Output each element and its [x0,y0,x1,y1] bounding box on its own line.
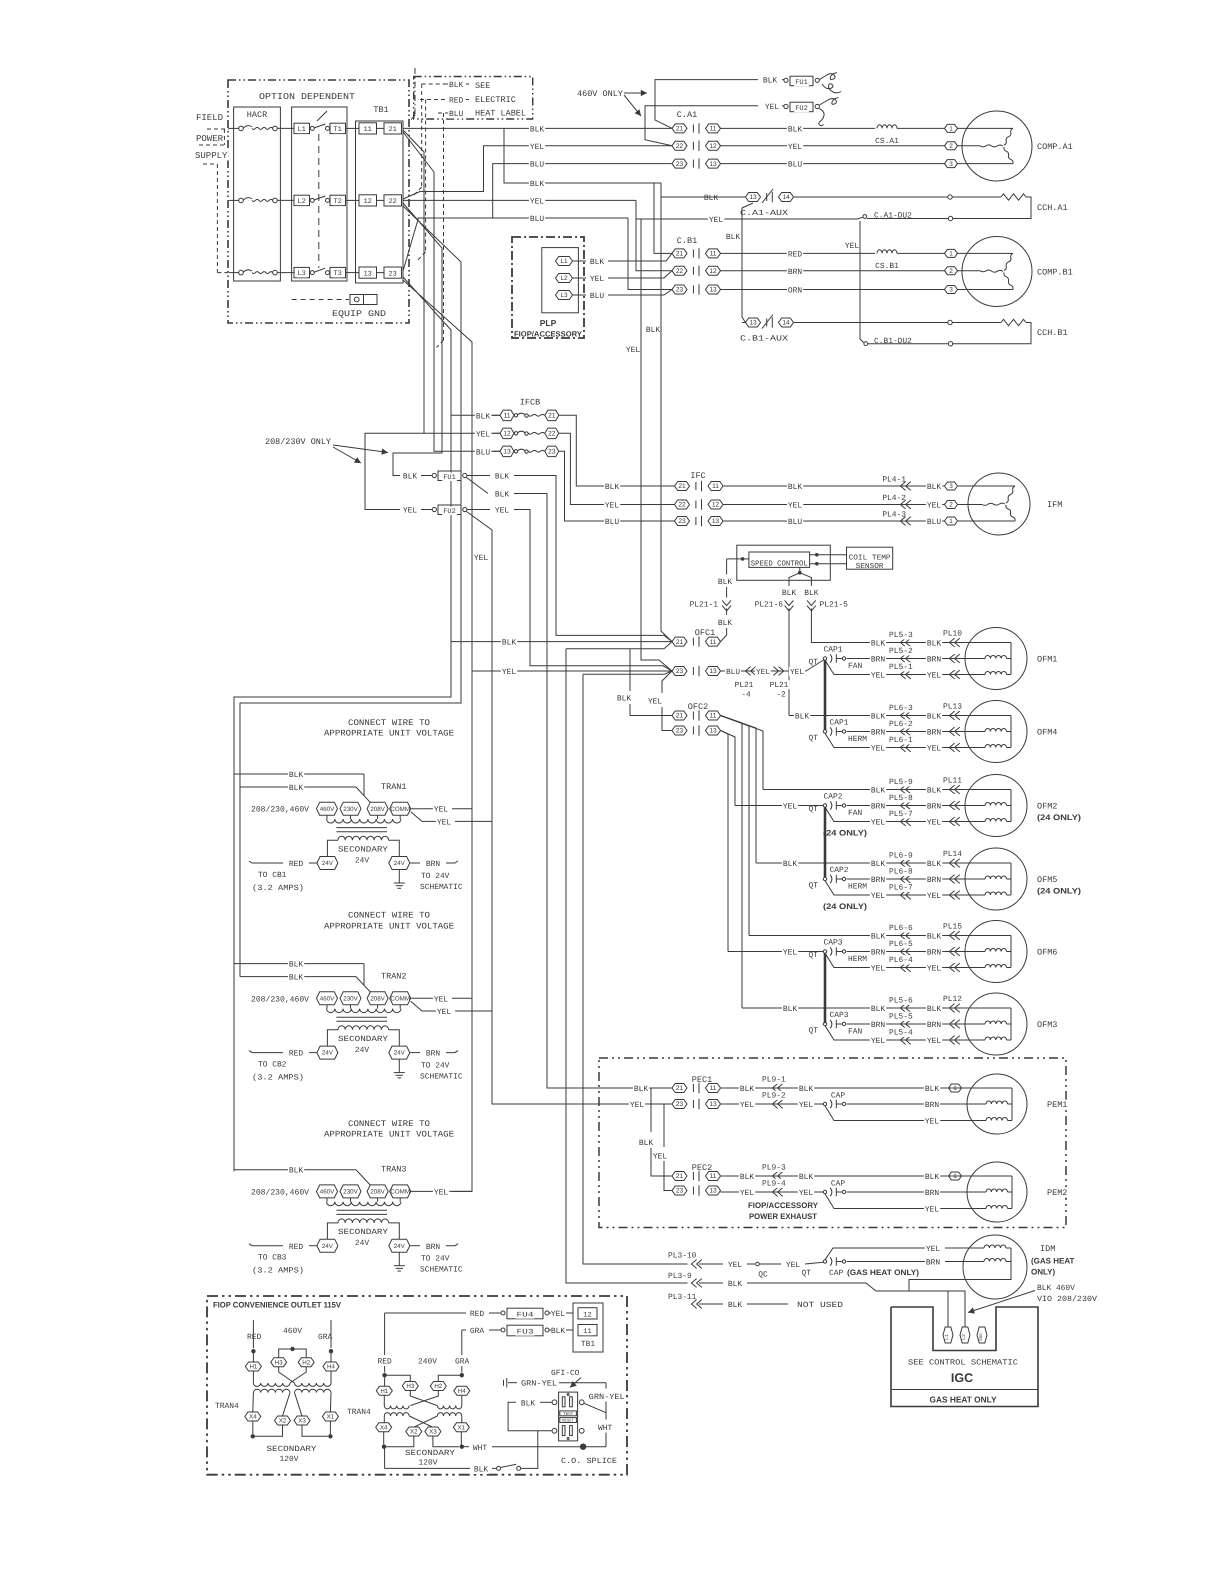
svg-text:208/230,460V: 208/230,460V [251,1188,309,1197]
box FIOP/ACCESSORY POWER EXHAUST (dash-dot) [599,1058,1066,1228]
svg-text:H2: H2 [302,1359,310,1366]
svg-text:208/230V ONLY: 208/230V ONLY [265,437,331,447]
svg-text:PL10: PL10 [943,630,962,639]
svg-text:CAP3: CAP3 [824,939,843,948]
svg-text:OFM1: OFM1 [1037,655,1057,665]
motor OFM2 [965,775,1027,837]
svg-text:BLK: BLK [718,619,732,628]
svg-text:X1: X1 [327,1414,335,1421]
svg-text:(GAS HEAT: (GAS HEAT [1031,1257,1075,1266]
label power exhaust [747,1201,819,1210]
speed control outer box [737,545,831,580]
WHT riser [605,1413,607,1420]
rail 472 YEL common (OFC1-23 / TRAN COMMs) [403,280,472,1191]
arrow to YEL vertical [624,95,641,116]
svg-text:RED: RED [470,1310,484,1319]
PEM1 wires [721,1087,949,1089]
svg-text:CAP1: CAP1 [824,646,843,655]
wire FU1 BLK out1 to rail 556 [467,475,490,477]
svg-text:C.O. SPLICE: C.O. SPLICE [561,1457,617,1466]
svg-text:X1: X1 [458,1424,466,1431]
svg-text:PL6-3: PL6-3 [889,704,913,713]
svg-text:YEL: YEL [927,745,941,754]
rail 654 BLK to C.B1-21 [654,183,672,253]
svg-text:BLK: BLK [927,1005,941,1014]
svg-text:1: 1 [953,1085,957,1092]
PEM2 wires [721,1175,949,1177]
rail 860 YEL DU2 link [860,221,864,343]
svg-text:YEL: YEL [740,1189,754,1198]
svg-text:PL13: PL13 [943,703,962,712]
svg-text:PL5-9: PL5-9 [889,778,913,787]
svg-text:BRN: BRN [927,1021,941,1030]
svg-text:YEL: YEL [437,819,451,828]
svg-text:POWER: POWER [196,134,224,144]
svg-text:(24 ONLY): (24 ONLY) [823,902,867,911]
OFM3 chevrons [900,1004,905,1013]
svg-text:BRN: BRN [871,876,885,885]
TB1 terminals 12/22 [359,195,377,206]
terminal L3 [556,291,573,300]
svg-text:CONNECT WIRE TO: CONNECT WIRE TO [348,911,430,921]
svg-text:21: 21 [678,483,686,490]
GFI-CO receptacle [550,1368,581,1377]
TRAN3 primary taps [250,1188,310,1197]
svg-text:BLK: BLK [763,77,777,86]
svg-text:PL3-9: PL3-9 [668,1272,692,1281]
TRAN1 RED lead [249,861,283,863]
contactor IFC label [689,471,706,481]
contact IFC 22-12 [604,501,620,510]
svg-text:13: 13 [709,287,717,294]
TB1 terminals 11/21 [359,123,377,134]
svg-text:21: 21 [548,413,556,420]
svg-text:BRN: BRN [927,803,941,812]
contact IFC 21-11 [604,482,620,491]
svg-text:WHT: WHT [598,1424,612,1433]
svg-text:RED: RED [289,1243,303,1252]
TRAN3 primary winding [326,1198,328,1202]
breaker HACR pole y200 [229,199,239,201]
svg-text:(24 ONLY): (24 ONLY) [1037,887,1081,896]
svg-text:BLU: BLU [590,292,604,301]
svg-text:12: 12 [712,502,720,509]
svg-text:TRAN3: TRAN3 [381,1165,407,1175]
breaker HACR pole y128 [229,127,239,129]
note connect wire 3 [347,1119,431,1129]
svg-text:PL6-1: PL6-1 [889,736,913,745]
contactor OFC2 [687,702,710,712]
svg-text:FIOP/ACCESSORY: FIOP/ACCESSORY [514,330,582,339]
capacitor QT CAP gas heat [801,1268,813,1277]
svg-text:FU1: FU1 [795,79,808,87]
svg-text:21: 21 [676,1085,684,1092]
dashed wire RED to TB1-23 zone [425,100,427,253]
rail 570 IFCB22 to IFC [559,433,675,504]
svg-text:FIOP CONVENIENCE OUTLET 115V: FIOP CONVENIENCE OUTLET 115V [213,1301,342,1310]
rail 576 IFCB21 to IFC [559,415,675,486]
TRAN4-460 H2-H3 jumper [279,1349,307,1358]
svg-text:OPTION DEPENDENT: OPTION DEPENDENT [259,92,356,102]
svg-text:FU2: FU2 [443,508,456,516]
svg-text:BLK: BLK [617,695,631,704]
svg-text:YEL: YEL [626,346,640,355]
svg-text:X3: X3 [298,1418,306,1425]
svg-text:FAN: FAN [848,1028,862,1037]
TRAN1 core [336,827,387,829]
contact L2-T2 [294,195,310,205]
TRAN1 YEL leads [411,808,434,810]
TB1 terminals 13/23 [359,267,377,278]
svg-text:YEL: YEL [502,668,516,677]
svg-text:BLK: BLK [634,1085,648,1094]
svg-text:GRN-YEL: GRN-YEL [521,1380,557,1389]
contact C.A1 21-11 [672,124,687,133]
svg-text:BLK: BLK [530,126,544,135]
svg-text:COMM: COMM [390,1189,410,1196]
wire BLK branch down to C.B1 zone [504,128,661,183]
svg-text:BLK: BLK [289,784,303,793]
svg-text:(24 ONLY): (24 ONLY) [1037,813,1081,822]
svg-text:C.B1-AUX: C.B1-AUX [740,335,788,344]
wire FU1 BLK out2 to rail 547 (PEC1) [467,478,489,494]
label 208/230V ONLY [264,437,332,447]
svg-text:BRN: BRN [871,656,885,665]
svg-text:208V: 208V [370,1189,385,1196]
mechanical link dashed [318,134,320,268]
svg-text:YEL: YEL [648,698,662,707]
svg-text:COMM: COMM [390,995,410,1002]
svg-text:GRA: GRA [455,1358,469,1367]
svg-text:460V: 460V [283,1327,302,1336]
heater CCH.A1 [948,195,952,199]
terminals 1 2 3 comp A1 [945,124,958,132]
svg-text:CAP2: CAP2 [830,866,849,875]
box PLP FIOP/ACCESSORY (dash-dot) [512,237,584,338]
svg-text:YEL: YEL [474,554,488,563]
TRAN1 secondary winding [338,836,389,840]
speed control inner box [749,552,810,567]
arrow to FU2 branch [333,447,361,463]
contact IFC 23-13 [604,517,620,526]
motor OFM6 [965,921,1027,983]
transformer TRAN4 460V version [246,1332,262,1341]
svg-text:12: 12 [709,268,717,275]
svg-text:BLK: BLK [476,412,490,421]
svg-text:OFC1: OFC1 [695,628,715,638]
svg-text:NOT USED: NOT USED [797,1301,843,1310]
svg-text:PL3-10: PL3-10 [668,1252,697,1261]
motor IDM [963,1235,1027,1299]
svg-text:BLK: BLK [927,483,941,492]
svg-text:2: 2 [949,143,953,150]
svg-text:YEL: YEL [871,672,885,681]
TRAN2 RED lead [249,1051,283,1053]
svg-text:BLK: BLK [783,1005,797,1014]
svg-text:WHT: WHT [473,1444,487,1453]
svg-text:YEL: YEL [551,1310,565,1319]
TRAN4-460 X terminals [245,1412,261,1421]
svg-text:BLK: BLK [521,1399,535,1408]
svg-text:BLK: BLK [927,787,941,796]
contact C.B1 23-13 [672,285,687,294]
svg-text:BLK: BLK [799,1173,813,1182]
TRAN1 primary taps [250,805,310,814]
svg-text:BRN: BRN [871,1021,885,1030]
plug C.A1-DU2 [852,218,857,220]
svg-text:OFM3: OFM3 [1037,1020,1057,1030]
svg-text:PL6-5: PL6-5 [889,940,913,949]
svg-text:BLU: BLU [726,668,740,677]
OFM5 labels [782,859,798,868]
svg-text:PL21: PL21 [735,681,754,690]
BLK splice switch bottom [517,1466,521,1470]
svg-text:(24 ONLY): (24 ONLY) [823,829,867,838]
rail 461 from TB1-22 to left rail 240 [240,206,461,977]
TRAN1 primary winding [326,815,328,819]
TRAN4-240 H terminals [376,1386,392,1395]
TRAN4-240 X cross [383,1416,385,1423]
svg-text:BLK: BLK [639,1139,653,1148]
svg-text:230V: 230V [343,806,358,813]
svg-text:13: 13 [709,1101,717,1108]
wire BLU phase3 Z-path to C.A1 [403,164,672,271]
svg-text:GRA: GRA [470,1327,484,1336]
pigtail squiggles FU1 [819,73,837,80]
svg-text:L3: L3 [560,292,568,299]
TRAN3 ground [398,1252,400,1266]
svg-text:L2: L2 [560,275,568,282]
svg-text:YEL: YEL [927,672,941,681]
rail 742 BLK aux link [742,203,753,323]
OFC2-13 output fan [721,731,736,806]
TRAN4-240 RED riser to FU4 [384,1313,386,1355]
coil CS.B1 [877,250,897,254]
svg-text:COIL TEMP: COIL TEMP [849,555,892,563]
IGC terminal GND [977,1327,987,1343]
motor PEM1 [967,1074,1027,1134]
label BLK 460V / VIO 208/230V + arrow [1036,1283,1076,1292]
svg-text:PL5-6: PL5-6 [889,997,913,1006]
svg-text:BLK: BLK [495,491,509,500]
svg-text:COMM: COMM [390,806,410,813]
svg-text:208/230,460V: 208/230,460V [251,806,309,815]
TRAN4-460 supply stubs [252,1320,254,1348]
wire BLU PL4 row [723,520,945,522]
TRAN4-460 H terminals [245,1362,261,1371]
svg-text:CCH.B1: CCH.B1 [1037,328,1068,338]
svg-text:HEAT LABEL: HEAT LABEL [475,109,526,119]
svg-text:BRN: BRN [925,1189,939,1198]
svg-text:C.A1-AUX: C.A1-AUX [740,209,788,218]
svg-text:208V: 208V [370,995,385,1002]
svg-text:RED: RED [289,860,303,869]
svg-text:13: 13 [503,449,511,456]
svg-text:BLK: BLK [590,258,604,267]
svg-text:BLK: BLK [871,787,885,796]
svg-text:1: 1 [949,126,953,133]
fuse FU4 row [385,1312,466,1314]
wire YEL row2 [721,145,945,147]
svg-text:CAP1: CAP1 [830,719,849,728]
coil temp sensor box [847,547,893,569]
svg-text:SECONDARY: SECONDARY [338,1035,388,1044]
svg-text:SEE CONTROL SCHEMATIC: SEE CONTROL SCHEMATIC [908,1359,1018,1368]
TRAN4-240 X terminals [376,1423,392,1432]
svg-text:YEL: YEL [871,892,885,901]
actuator diagonal [317,111,327,121]
svg-text:BLK: BLK [927,713,941,722]
OFM4 labels [870,712,886,721]
PLP inner box [542,248,579,313]
OFM2 labels [870,786,886,795]
PEM1 labels [739,1084,755,1093]
svg-text:APPROPRIATE UNIT VOLTAGE: APPROPRIATE UNIT VOLTAGE [324,921,454,931]
svg-text:L2: L2 [961,1334,967,1340]
heater CCH.B1 [794,322,948,324]
svg-text:H4: H4 [458,1388,466,1395]
svg-text:RED: RED [449,97,463,106]
svg-text:BLK: BLK [783,860,797,869]
svg-text:BRN: BRN [788,268,802,277]
TRAN4-460 secondary joins [252,1421,254,1434]
svg-text:GFI-CO: GFI-CO [551,1369,580,1378]
svg-text:GAS HEAT ONLY: GAS HEAT ONLY [930,1395,997,1405]
svg-text:YEL: YEL [799,1101,813,1110]
contactor OFC1 [694,628,717,638]
rail 628 BLU to C.B1-23 [628,218,672,290]
contactor C.B1 label [676,236,699,246]
svg-text:YEL: YEL [786,1261,800,1270]
rail 434 from TB1-21 to IFCB BLU [403,132,500,451]
svg-text:SCHEMATIC: SCHEMATIC [420,1266,463,1275]
svg-text:BLK: BLK [799,1085,813,1094]
wire YEL into OFC1-23 [472,670,672,672]
svg-text:230V: 230V [343,995,358,1002]
svg-text:X2: X2 [410,1429,418,1436]
svg-text:BLK: BLK [704,194,718,203]
svg-text:PL11: PL11 [943,777,962,786]
svg-text:YEL: YEL [790,668,804,677]
svg-text:PL21-1: PL21-1 [690,601,719,610]
wire BLK into OFC1-21 [451,641,672,643]
svg-text:BLK: BLK [782,589,796,598]
motor COMP.A1 [962,111,1032,181]
TRAN3 YEL leads [411,1190,434,1192]
wire 460V BLK feed [655,80,758,129]
svg-text:YEL: YEL [476,430,490,439]
svg-text:12: 12 [709,143,717,150]
svg-text:L1: L1 [297,126,305,134]
svg-text:YEL: YEL [871,745,885,754]
svg-text:CONNECT WIRE TO: CONNECT WIRE TO [348,1119,430,1129]
svg-text:11: 11 [710,1085,717,1092]
svg-text:24V: 24V [355,1046,369,1055]
fuse FU1 208/230V [402,472,418,481]
svg-text:COMP.A1: COMP.A1 [1037,142,1073,152]
wire PL21-1 BLK [726,559,728,575]
svg-text:13: 13 [709,728,717,735]
transformer TRAN3 BLK feeds [234,1169,356,1171]
svg-text:H4: H4 [327,1364,335,1371]
svg-text:3: 3 [949,483,953,490]
svg-text:24V: 24V [322,1050,334,1057]
TRAN3 secondary winding [338,1219,389,1223]
svg-text:PL14: PL14 [943,850,962,859]
svg-text:22: 22 [676,143,684,150]
breaker HACR pole y272 [229,272,239,274]
contact C.B1 21-11 [672,249,687,258]
svg-text:12: 12 [503,431,511,438]
branch YEL to PEC2 [663,1104,665,1147]
svg-text:YEL: YEL [434,995,448,1004]
svg-text:BRN: BRN [925,1101,939,1110]
svg-text:FU3: FU3 [517,1329,534,1337]
TB1 outer box bottom-left [573,1303,603,1352]
svg-text:BLK: BLK [788,483,802,492]
motor OFM5 [965,848,1027,910]
fuse FU2 [782,105,784,107]
svg-text:YEL: YEL [926,1245,940,1254]
contact C.B1 22-12 [672,266,687,275]
svg-text:22: 22 [388,198,396,206]
note connect wire 1 [347,718,431,728]
svg-text:YEL: YEL [871,965,885,974]
OFM3 labels [782,1004,798,1013]
svg-text:OFM4: OFM4 [1037,728,1057,738]
svg-text:SPEED CONTROL: SPEED CONTROL [751,559,808,568]
svg-text:21: 21 [676,639,684,646]
svg-text:PL9-4: PL9-4 [762,1180,786,1189]
svg-text:OFM2: OFM2 [1037,802,1057,812]
svg-text:FU1: FU1 [443,474,456,482]
svg-text:24V: 24V [322,860,334,867]
wire YEL IDM top [825,1248,926,1260]
transformer TRAN2 BLK feeds [234,963,364,965]
svg-text:PEM1: PEM1 [1047,1100,1067,1110]
svg-text:BRN: BRN [426,1050,440,1059]
svg-text:SECONDARY: SECONDARY [338,846,388,855]
wire BLK phase1 TB1-21 to C.A1 [403,127,672,129]
motor OFM3 [965,993,1027,1055]
rail 660 BLK down to OFC1 [661,197,672,642]
svg-text:BLK 460V: BLK 460V [1037,1284,1075,1293]
svg-text:BRN: BRN [926,1259,940,1268]
svg-text:21: 21 [388,126,396,134]
svg-text:BLK: BLK [804,589,818,598]
svg-text:BLU: BLU [927,518,941,527]
svg-text:X4: X4 [249,1414,257,1421]
rail 442 from TB1-22 to FU1 [393,203,442,476]
svg-text:BLK: BLK [289,1167,303,1176]
OFM6 labels [870,932,886,941]
svg-text:TB1: TB1 [581,1340,595,1349]
TRAN4-240 jumpers to H3/H2 [385,1375,411,1381]
svg-text:X3: X3 [429,1429,437,1436]
svg-text:21: 21 [676,713,684,720]
svg-text:YEL: YEL [927,819,941,828]
svg-text:TO 24V: TO 24V [421,1255,450,1264]
wires to sensor [815,553,819,557]
connector PL3-9 [667,1271,693,1280]
svg-text:BLK: BLK [871,640,885,649]
wire BLK PL4 row [723,485,945,487]
EQUIP GND lug [292,299,349,301]
svg-text:L3: L3 [297,270,305,278]
HACR circuit breaker box [234,107,281,281]
svg-text:FU4: FU4 [517,1312,534,1320]
TRAN3 RED lead [249,1244,283,1246]
